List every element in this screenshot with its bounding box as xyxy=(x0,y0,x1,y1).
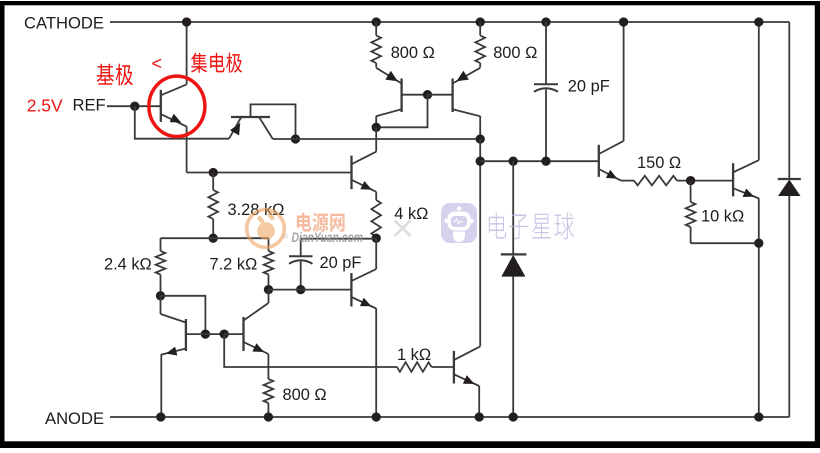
wire 1k to Q10 base xyxy=(432,366,454,368)
junction Q2 collector-base node xyxy=(291,134,300,143)
node CATHODE label xyxy=(24,14,104,33)
junction Q1 collector / cathode xyxy=(182,17,191,26)
wire cathode rail xyxy=(110,21,789,23)
transistor Q4m (PNP mirror left) xyxy=(376,68,401,116)
svg-text:®: ® xyxy=(283,233,289,241)
label 150 ohm xyxy=(637,154,681,172)
resistor 1 kohm xyxy=(397,362,432,372)
label 800 ohm (bottom) xyxy=(283,386,327,404)
label 20 pF (right) xyxy=(568,78,610,96)
junction D1 / anode xyxy=(509,412,518,421)
wire Q1 collector to cathode rail xyxy=(186,22,188,84)
label 3.28 kohm xyxy=(228,201,285,219)
label 2.4 kohm xyxy=(104,256,152,274)
wire Q4 collector riser to 2.4k bottom xyxy=(160,296,162,314)
wire Q5m base to mirror centre xyxy=(428,94,453,96)
transistor Q10 (NPN, lower output) xyxy=(454,346,480,386)
svg-text:3.28 kΩ: 3.28 kΩ xyxy=(228,201,285,219)
label 7.2 kohm xyxy=(210,256,258,274)
node ANODE label xyxy=(45,409,104,428)
wire 2.4k node over to bases riser xyxy=(161,296,206,334)
label 20 pF (left) xyxy=(320,254,362,272)
wire long vertical bus (mirror-right node to Q10 collector) xyxy=(479,139,481,346)
junction bases node right dot xyxy=(220,329,229,338)
wire Q10 emitter to anode rail xyxy=(478,386,480,417)
svg-text:150 Ω: 150 Ω xyxy=(637,154,681,172)
wire bus node to Q8 base xyxy=(480,160,599,162)
junction 7.2k bottom / Q5 collector / Q6 base node xyxy=(264,285,273,294)
red annotation text 集电极 (collector) xyxy=(191,53,242,73)
junction 4k bottom / Q6 collector node xyxy=(372,234,381,243)
wire Q4 base lead xyxy=(186,333,206,335)
junction 20pF-2 bottom xyxy=(541,157,550,166)
wire divider top line xyxy=(161,237,269,239)
label 800 ohm (left) xyxy=(391,44,435,62)
junction cap1 bottom on Q6 base line xyxy=(296,285,305,294)
label 10 kohm xyxy=(701,208,744,226)
wire Q3 collector riser xyxy=(375,127,377,151)
label 4 kohm xyxy=(394,205,428,223)
svg-text:ANODE: ANODE xyxy=(45,409,104,428)
svg-text:800 Ω: 800 Ω xyxy=(493,44,537,62)
junction Q9 collector / cathode xyxy=(754,17,763,26)
resistor 10 kohm xyxy=(686,181,696,244)
resistor 800 ohm (left) xyxy=(371,22,381,67)
transistor Q3 (NPN, first gain stage) xyxy=(352,152,377,192)
junction mirror bases xyxy=(423,90,432,99)
wire REF lead to Q1 base xyxy=(107,105,161,107)
wire Q4 emitter to anode rail xyxy=(160,354,162,417)
resistor 2.4 kohm xyxy=(156,238,166,296)
watermark text 电子星球 xyxy=(489,212,574,239)
svg-text:20 pF: 20 pF xyxy=(568,78,610,96)
svg-text:2.4 kΩ: 2.4 kΩ xyxy=(104,256,152,274)
svg-text:1 kΩ: 1 kΩ xyxy=(397,346,431,364)
red annotation < mark xyxy=(152,54,163,74)
transistor Q5 (NPN, right of bottom pair) xyxy=(244,303,269,354)
junction Q9 emitter / anode xyxy=(754,412,763,421)
wire Q6 emitter to anode rail xyxy=(375,308,377,417)
wire Q5 base lead xyxy=(224,333,243,335)
wire Q9 collector to cathode rail xyxy=(758,22,760,160)
junction mirror-right collector node xyxy=(476,134,485,143)
label 800 ohm (right) xyxy=(493,44,537,62)
wire 7.2k bottom to Q6 base xyxy=(269,289,352,291)
junction 3.28k bottom xyxy=(209,234,218,243)
junction 2.4k bottom / Q4 collector xyxy=(156,291,165,300)
svg-text:4 kΩ: 4 kΩ xyxy=(394,205,428,223)
transistor Q9 (NPN, main output) xyxy=(733,160,759,198)
wire cathode rail right corner down to D2 xyxy=(788,22,790,179)
transistor Q6 (NPN, second stage) xyxy=(351,269,376,308)
capacitor 20 pF (left) xyxy=(289,239,313,290)
junction y161 line start on bus xyxy=(476,157,485,166)
svg-text:2.5V: 2.5V xyxy=(27,96,63,116)
junction 3.28k top xyxy=(209,168,218,177)
watermark x separator xyxy=(395,221,411,237)
wire REF branch down/right to Q2 emitter xyxy=(135,106,229,139)
junction Q10 emitter / anode xyxy=(475,412,484,421)
node 2.5V label (red) xyxy=(27,96,63,116)
junction D1 top xyxy=(509,157,518,166)
svg-text:10 kΩ: 10 kΩ xyxy=(701,208,744,226)
capacitor 20 pF (right) xyxy=(534,22,558,161)
transistor Q4 (NPN, mirrored left of bottom pair) xyxy=(161,314,186,356)
node REF label xyxy=(73,96,106,115)
wire mirror bases down to left collector node xyxy=(376,95,427,128)
wire Q8 emitter to 150 ohm xyxy=(621,180,634,182)
wire Q2 base loop to collector node xyxy=(251,104,296,139)
junction bases node left dot xyxy=(201,329,210,338)
svg-text:<: < xyxy=(152,54,163,74)
wire 150 ohm to Q9 base xyxy=(677,180,733,182)
resistor 150 ohm xyxy=(634,176,677,186)
svg-text:20 pF: 20 pF xyxy=(320,254,362,272)
svg-text:7.2 kΩ: 7.2 kΩ xyxy=(210,256,258,274)
junction 150 ohm / 10k top xyxy=(686,176,695,185)
wire Q8 collector riser to cathode xyxy=(623,22,625,141)
wire Q1 emitter down to 3.28k node line xyxy=(186,126,188,172)
resistor 800 ohm (bottom) xyxy=(264,379,274,417)
watermark text 电源网 xyxy=(297,213,345,232)
wire between base dots xyxy=(205,333,224,335)
junction 800 ohm bottom / anode xyxy=(264,412,273,421)
resistor 800 ohm (right) xyxy=(475,22,485,67)
svg-text:800 Ω: 800 Ω xyxy=(391,44,435,62)
transistor Q2 (diode-connected PNP) xyxy=(229,117,273,139)
wire Q2 node to mirror-right collector (y=139 bus) xyxy=(273,138,480,140)
svg-text:CATHODE: CATHODE xyxy=(24,14,104,33)
wire Q4m collector drop xyxy=(375,116,377,127)
junction Q8 collector / cathode xyxy=(619,17,628,26)
transistor Q5m (PNP mirror right) xyxy=(453,68,481,116)
wire Q5 collector riser to 7.2k bottom xyxy=(268,290,270,303)
diode D2 (output clamp, right edge) xyxy=(778,179,801,417)
red ellipse annotation around Q1 xyxy=(149,76,205,136)
junction Q9 emitter / 10k return xyxy=(754,239,763,248)
diode D1 (centre clamp) xyxy=(501,161,527,417)
wire mirror-right collector drop to y139 bus xyxy=(479,116,481,139)
junction cathode / 20pF-2 xyxy=(541,17,550,26)
junction Q6 emitter / anode xyxy=(372,412,381,421)
svg-text:DianYuan.com: DianYuan.com xyxy=(292,229,364,245)
wire cap top to 4k bottom node xyxy=(301,238,377,240)
junction REF node xyxy=(130,102,139,111)
wire Q5 emitter down to 800 ohm xyxy=(267,354,269,379)
red annotation text 基极 (base) xyxy=(97,64,133,86)
transistor Q8 (NPN, driver) xyxy=(599,141,624,181)
transistor Q1 (NPN, REF input) xyxy=(161,84,187,126)
junction cathode / 800-ohm-2 xyxy=(476,17,485,26)
watermark robot logo (dianzixingqiu) xyxy=(441,203,477,243)
watermark text DianYuan.com xyxy=(283,229,363,245)
junction mirror-left collector / Q3 collector xyxy=(372,123,381,132)
svg-text:REF: REF xyxy=(73,96,106,115)
wire bases node down and right to 1k xyxy=(224,334,397,367)
watermark DianYuan logo circle xyxy=(247,210,285,248)
resistor 4 kohm xyxy=(371,192,381,238)
wire 10k bottom over to Q9 emitter line xyxy=(691,242,759,244)
wire Q6 collector riser to 4k node xyxy=(375,238,377,269)
wire Q4m base to mirror centre xyxy=(402,94,428,96)
svg-text:800 Ω: 800 Ω xyxy=(283,386,327,404)
wire 3.28k node line to Q3 base xyxy=(187,172,352,174)
resistor 3.28 kohm xyxy=(208,173,218,239)
wire anode rail xyxy=(110,416,789,418)
resistor 7.2 kohm xyxy=(264,238,274,289)
wire Q9 emitter down to anode rail xyxy=(758,198,760,417)
label 1 kohm xyxy=(397,346,431,364)
junction Q4 emitter / anode xyxy=(156,412,165,421)
junction cathode / 800-ohm-1 xyxy=(372,17,381,26)
